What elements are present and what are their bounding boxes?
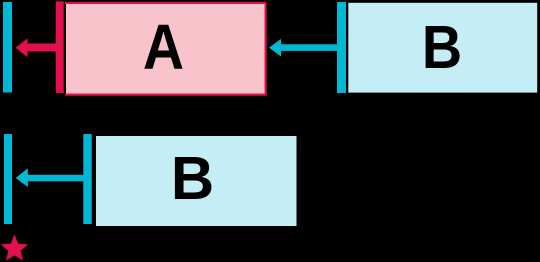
svg-text:A: A	[143, 11, 184, 83]
svg-text:B: B	[422, 14, 462, 82]
svg-text:B: B	[171, 144, 214, 213]
